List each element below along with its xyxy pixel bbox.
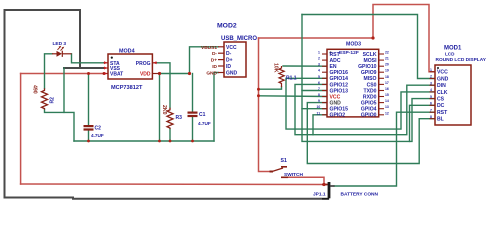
svg-text:R3: R3 [176,115,183,121]
svg-text:D+: D+ [226,58,233,64]
svg-text:GPIO15: GPIO15 [330,107,349,113]
svg-text:VDD: VDD [140,71,151,77]
wire green C2 branch [88,74,90,142]
svg-text:ADC: ADC [330,58,341,64]
svg-text:GPIO14: GPIO14 [330,76,349,82]
svg-text:RST: RST [330,52,341,58]
svg-text:3: 3 [318,63,320,67]
svg-text:RXD0: RXD0 [363,94,377,100]
wire green route GPIO14 to CLK [286,78,435,129]
wire green route GPIO12 to DIN [295,84,435,134]
svg-text:15: 15 [385,93,389,97]
svg-text:GPIO16: GPIO16 [330,70,349,76]
svg-text:10K: 10K [273,63,279,73]
LCD pin numbers [430,68,432,119]
svg-text:10: 10 [317,105,321,109]
svg-text:22: 22 [385,51,389,55]
svg-text:VCC: VCC [437,70,448,76]
display MOD1 ROUND LCD DISPLAY [435,46,487,126]
svg-text:BATTERY CONN: BATTERY CONN [341,192,379,198]
wire green top line to LCD GND [302,15,435,79]
wire green VDD line [160,74,190,142]
svg-text:VCC: VCC [330,94,341,100]
wire green USB GND drop [214,73,218,142]
svg-text:JP1.1: JP1.1 [313,192,326,198]
svg-text:16: 16 [385,87,389,91]
svg-text:18: 18 [385,75,389,79]
wire green PROG to R3 [157,63,170,141]
svg-text:GPIO0: GPIO0 [361,113,377,119]
svg-text:VBUS1: VBUS1 [201,45,217,51]
svg-text:PROG: PROG [136,61,151,67]
svg-text:2: 2 [318,57,320,61]
ESP pin labels left [330,52,349,119]
svg-text:8: 8 [430,115,432,119]
wire green LED anode to R2 [45,54,53,89]
capacitor C2 [84,125,94,131]
ESP pin labels right [358,52,377,119]
svg-text:DIN: DIN [437,83,446,89]
svg-text:1: 1 [430,68,432,72]
svg-text:GPIO9: GPIO9 [361,70,377,76]
wire green VBUS riser [190,47,219,74]
ESP pin numbers [317,51,389,116]
resistor R2 [42,88,48,109]
wire green R2 bottom to gnd rail [45,110,75,142]
svg-text:GPIO5: GPIO5 [361,101,377,107]
IC MOD4 MCP73812T [104,49,160,92]
svg-text:MOD4: MOD4 [119,49,135,55]
wire green GPIO2 drop [313,115,327,135]
svg-text:3: 3 [430,81,432,85]
svg-text:ESP-12F: ESP-12F [339,50,359,56]
svg-text:ROUND LCD DISPLAY: ROUND LCD DISPLAY [436,57,487,63]
svg-text:14: 14 [385,99,389,103]
svg-text:R2: R2 [50,97,56,104]
svg-text:LCD: LCD [445,52,455,57]
resistor R1.1 [279,66,284,87]
svg-text:19: 19 [385,69,389,73]
svg-text:8: 8 [318,93,320,97]
svg-text:RST: RST [437,110,448,116]
wire red switch branch [259,38,325,185]
wire green VSS drop [63,68,65,112]
svg-text:20: 20 [385,63,389,67]
module MOD3 ESP-12F [327,42,379,117]
svg-text:21: 21 [385,57,389,61]
svg-text:GND: GND [330,101,342,107]
svg-text:4.7UF: 4.7UF [198,121,211,126]
svg-text:MOD2: MOD2 [217,23,237,30]
svg-text:4: 4 [318,69,320,73]
svg-text:GPIO2: GPIO2 [330,113,346,119]
svg-text:6: 6 [318,81,320,85]
capacitor C1 [188,112,198,118]
svg-text:CS: CS [437,97,445,103]
ESP pin stubs left [322,54,327,115]
svg-text:C1: C1 [199,112,206,118]
LCD pin stubs [430,72,436,119]
svg-text:D-: D- [212,51,217,57]
svg-text:R1.1: R1.1 [286,76,297,82]
ESP pin stubs right [379,54,384,115]
svg-text:490: 490 [32,85,38,94]
wire red VBAT rail [21,74,329,185]
svg-text:USB_MICRO: USB_MICRO [221,36,257,42]
wire green route GND to BL [307,103,435,164]
svg-text:6: 6 [430,102,432,106]
svg-text:MOSI: MOSI [363,58,377,64]
svg-text:1: 1 [318,51,320,55]
svg-text:MOD3: MOD3 [346,42,361,48]
wire green route DC [410,105,436,141]
wire green LED cathode to STA [72,54,104,63]
svg-text:5: 5 [430,95,432,99]
svg-text:CLK: CLK [437,90,448,96]
svg-text:7: 7 [318,87,320,91]
resistor R3 [167,108,173,129]
switch S1 [270,167,289,178]
connector MOD2 USB_MICRO [201,23,257,78]
svg-text:SWITCH: SWITCH [284,172,303,178]
wire green battery to RST [335,112,436,186]
svg-text:11: 11 [317,111,321,115]
svg-text:LED 3: LED 3 [53,41,67,47]
svg-text:VBAT: VBAT [110,71,123,77]
svg-text:GND: GND [437,76,449,82]
svg-text:S1: S1 [281,158,287,164]
LED D3 symbol [52,46,72,57]
svg-text:4: 4 [430,88,432,92]
LCD pin labels [437,70,449,123]
wire green GPIO13 tee [302,90,327,92]
wire battery negative black loop [5,10,329,199]
svg-text:2K0: 2K0 [161,105,167,115]
svg-text:BL: BL [437,117,444,123]
svg-text:C2: C2 [95,126,102,132]
wire red top to LCD VCC [259,5,436,72]
svg-text:2: 2 [430,75,432,79]
svg-text:VCC: VCC [226,45,237,51]
svg-text:GND: GND [226,71,238,77]
svg-text:7: 7 [430,108,432,112]
wire green bottom gnd rail [74,140,214,142]
svg-text:12: 12 [385,111,389,115]
svg-text:GPIO4: GPIO4 [361,107,377,113]
svg-text:SCLK: SCLK [363,52,377,58]
svg-text:D+: D+ [211,58,217,64]
svg-text:13: 13 [385,105,389,109]
svg-text:D-: D- [226,51,232,57]
svg-text:GPIO12: GPIO12 [330,82,349,88]
svg-text:DC: DC [437,103,445,109]
svg-text:5: 5 [318,75,320,79]
svg-text:MCP73812T: MCP73812T [111,85,143,91]
wire green C1 branch [192,74,194,142]
svg-text:4.7UF: 4.7UF [91,133,104,138]
wire green R1.1 bottom tie [259,87,282,89]
wire green route EN vertical to CS [302,15,435,142]
svg-text:ID: ID [212,64,217,70]
svg-text:GND: GND [206,71,217,77]
svg-text:MISO: MISO [363,76,376,82]
svg-text:17: 17 [385,81,389,85]
svg-text:9: 9 [318,99,320,103]
wire green ESP VCC feed [259,95,328,98]
battery connector JP1.1 [322,182,335,199]
wire green EN net with R1.1 [283,65,327,67]
svg-text:ID: ID [226,64,231,70]
svg-text:CS0: CS0 [367,82,377,88]
